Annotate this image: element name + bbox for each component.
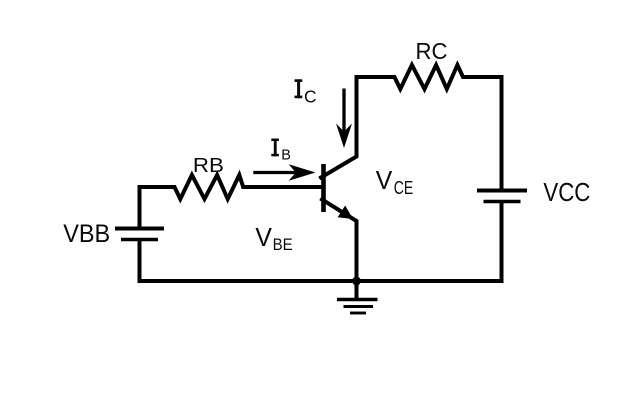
svg-text:CE: CE [394, 177, 414, 198]
svg-text:RC: RC [416, 38, 448, 64]
svg-text:V: V [376, 165, 393, 195]
svg-text:RB: RB [193, 154, 224, 177]
svg-text:BE: BE [273, 235, 293, 254]
svg-text:VBB: VBB [63, 220, 110, 248]
svg-text:VCC: VCC [543, 179, 590, 207]
svg-text:V: V [255, 222, 272, 252]
svg-text:B: B [281, 148, 291, 164]
svg-text:C: C [304, 87, 317, 107]
